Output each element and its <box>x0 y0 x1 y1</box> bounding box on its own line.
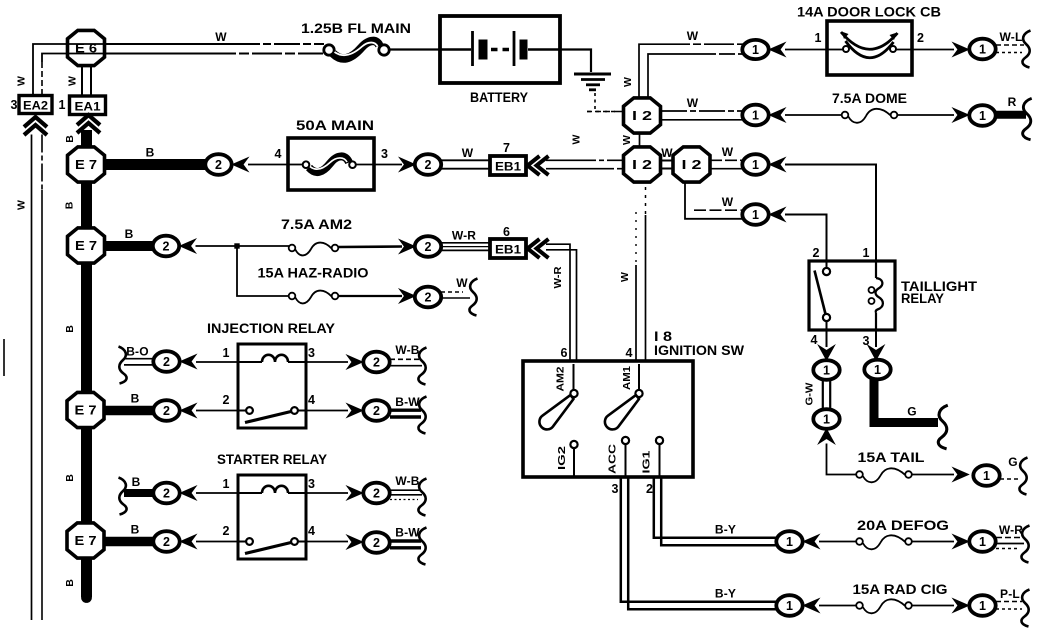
svg-text:W: W <box>16 200 28 210</box>
svg-text:B: B <box>131 523 140 537</box>
svg-text:2: 2 <box>646 482 653 496</box>
wire W-L tail and squiggle <box>996 30 1031 68</box>
connector 2 (left of 7.5A AM2) <box>153 236 179 257</box>
svg-text:2: 2 <box>223 524 230 538</box>
connector arrows right of EB1 pin 7 <box>528 156 549 175</box>
wire to fuse 7.5A AM2 <box>196 245 290 247</box>
svg-text:2: 2 <box>813 246 820 260</box>
wire to starter pin 2 <box>196 541 238 543</box>
svg-text:W-R: W-R <box>999 523 1023 537</box>
fuse 7.5A AM2 <box>289 243 339 256</box>
svg-text:7: 7 <box>503 141 510 155</box>
connector 2 (injection pin2 side) <box>153 400 179 421</box>
svg-text:W: W <box>67 76 79 86</box>
svg-text:4: 4 <box>811 333 818 347</box>
svg-text:2: 2 <box>215 158 222 172</box>
svg-text:W: W <box>571 134 583 144</box>
connector arrows below EA2 <box>24 117 47 135</box>
svg-text:I 2: I 2 <box>632 109 652 123</box>
svg-text:G-W: G-W <box>804 382 816 405</box>
svg-text:ACC: ACC <box>607 443 619 474</box>
connector 1 (defog out) <box>969 531 995 552</box>
starter relay switch <box>238 538 306 553</box>
svg-text:W: W <box>687 29 699 43</box>
svg-text:I 2: I 2 <box>632 158 652 172</box>
wire pair below EA2 running down left edge <box>32 135 43 621</box>
svg-text:15A HAZ-RADIO: 15A HAZ-RADIO <box>258 266 369 281</box>
svg-text:IG1: IG1 <box>641 450 653 473</box>
ignition IG1 contact <box>656 437 663 477</box>
wire W from I2 right to taillight relay pin 1 <box>710 160 742 168</box>
connector I2 (middle) <box>624 147 661 182</box>
connector arrow starter pin2 <box>181 535 197 549</box>
connector 1 (tail out) <box>973 465 999 486</box>
svg-text:4: 4 <box>275 147 282 161</box>
connector arrow below lower 1 <box>819 429 835 444</box>
svg-text:RELAY: RELAY <box>901 291 944 306</box>
fuse 15A RAD CIG <box>856 599 912 613</box>
svg-text:1: 1 <box>223 346 230 360</box>
svg-text:3: 3 <box>11 98 18 112</box>
wire W pair from I2 down to ignition pin 4 <box>636 187 646 361</box>
connector arrow injection pin3 <box>347 355 363 369</box>
wire rad cig fuse to connector <box>912 605 955 607</box>
wire E6 to EA2 (two lines) <box>33 44 104 96</box>
svg-text:2: 2 <box>373 404 380 418</box>
connector 1 (tail leg lower) <box>813 409 839 429</box>
svg-text:15A RAD CIG: 15A RAD CIG <box>853 582 948 597</box>
wire W from I2 top to dome fuse (double line) <box>661 111 742 120</box>
svg-text:P-L: P-L <box>1000 587 1020 601</box>
connector arrow right of 7.5A AM2 <box>400 240 416 254</box>
connector I2 (right) <box>673 147 710 182</box>
svg-text:1: 1 <box>752 43 759 57</box>
wire E6 to EA1 (double line) <box>82 66 91 96</box>
connector I2 (top) <box>624 98 661 133</box>
taillight relay coil <box>869 261 883 330</box>
svg-text:B-Y: B-Y <box>715 523 736 537</box>
wire to door lock CB pin 1 <box>785 49 827 51</box>
wire fuse to connector <box>339 295 403 297</box>
connector arrow starter pin3 <box>347 486 363 500</box>
svg-text:B-W: B-W <box>395 526 420 540</box>
wire W-B and squiggle (injection pin3) <box>390 343 427 385</box>
svg-text:W-B: W-B <box>395 474 419 488</box>
wire defog fuse to connector <box>912 541 955 543</box>
fuse 20A DEFOG <box>856 535 912 549</box>
svg-text:W: W <box>16 76 28 86</box>
connector arrows below EA1 <box>77 115 100 133</box>
connector 2 (left of 50A MAIN) <box>205 154 231 175</box>
wire relay pin 3 down <box>875 330 877 347</box>
battery <box>440 16 560 83</box>
wire B squiggle thick to connector (starter pin1) <box>119 475 155 515</box>
svg-text:G: G <box>1008 455 1018 469</box>
connector EA2 with pin 3 <box>11 96 52 114</box>
connector 1 (rad cig out) <box>969 595 995 616</box>
svg-text:B: B <box>125 227 134 241</box>
wire W link between I2 middle and I2 right <box>661 161 673 169</box>
wire link I2 top to I2 middle <box>639 133 641 147</box>
svg-text:W: W <box>215 30 227 44</box>
svg-text:4: 4 <box>626 346 633 360</box>
connector arrow left of 7.5A AM2 <box>180 239 196 253</box>
connector 1 (rad cig feed) <box>776 595 802 616</box>
squiggle G wire continues <box>938 405 948 449</box>
svg-text:1: 1 <box>752 158 759 172</box>
ignition AM1 lever <box>605 395 639 429</box>
wire G-W pair <box>823 380 830 409</box>
connector 1 (door lock out) <box>969 39 995 60</box>
dashed wire left of I2 top <box>587 111 623 113</box>
svg-text:I 8: I 8 <box>654 329 673 344</box>
svg-text:2: 2 <box>373 356 380 370</box>
svg-text:B-W: B-W <box>395 395 420 409</box>
wire from I2 right down to relay pin 2 connector <box>685 182 742 219</box>
connector arrow starter pin1 <box>181 486 197 500</box>
svg-text:2: 2 <box>163 355 170 369</box>
wire starter pin 4 to connector <box>306 541 348 543</box>
svg-text:I 2: I 2 <box>682 158 702 172</box>
wire G thick from pin 3 connector <box>874 379 938 423</box>
svg-text:2: 2 <box>163 240 170 254</box>
wire B thick E7 to connector 2 (7.5A AM2 row) <box>104 241 153 251</box>
svg-text:1: 1 <box>823 413 830 427</box>
svg-text:E 7: E 7 <box>75 239 97 253</box>
svg-text:AM1: AM1 <box>621 366 633 390</box>
wire tail fuse to connector <box>912 474 955 476</box>
svg-text:1: 1 <box>786 535 793 549</box>
svg-text:1: 1 <box>59 98 66 112</box>
svg-text:2: 2 <box>917 31 924 45</box>
svg-text:B-O: B-O <box>126 345 149 359</box>
ground <box>574 74 611 90</box>
wire W-R tail and squiggle (defog) <box>996 523 1030 563</box>
ignition switch box <box>523 361 693 477</box>
connector arrow taillight feed <box>770 158 786 172</box>
wire door lock CB pin 2 to connector <box>912 49 954 51</box>
connector 1 (below pin 3) <box>864 360 890 380</box>
connector 1 (below pin 4) <box>813 360 839 380</box>
svg-text:W: W <box>722 145 734 159</box>
injection relay coil <box>238 355 306 362</box>
stray page edge mark <box>3 339 5 376</box>
svg-text:E 7: E 7 <box>75 158 97 172</box>
svg-text:6: 6 <box>503 225 510 239</box>
connector arrow below pin 3 <box>868 346 884 361</box>
svg-text:B: B <box>64 135 76 143</box>
svg-text:2: 2 <box>425 240 432 254</box>
wire W-R from EB1 down to ignition switch pin 6 <box>546 244 577 361</box>
wire W from I2 top up to door lock CB row <box>639 44 743 98</box>
svg-text:1: 1 <box>979 535 986 549</box>
svg-text:2: 2 <box>163 487 170 501</box>
svg-text:2: 2 <box>223 393 230 407</box>
connector arrow injection pin2 <box>181 404 197 418</box>
svg-text:E 7: E 7 <box>75 534 97 548</box>
wire B-Y from ACC down to 15A RAD CIG <box>621 477 776 609</box>
connector arrow right of door lock CB <box>953 43 969 57</box>
wire to starter pin 1 <box>196 492 238 494</box>
connector arrow injection pin4 <box>347 404 363 418</box>
svg-text:W: W <box>456 276 468 290</box>
connector 1 (door lock feed) <box>742 40 768 59</box>
svg-text:4: 4 <box>308 524 315 538</box>
svg-text:1: 1 <box>863 246 870 260</box>
svg-text:2: 2 <box>163 404 170 418</box>
svg-text:B-Y: B-Y <box>715 587 736 601</box>
main B bus wire from EA1 down <box>81 130 92 603</box>
connector 2 (injection pin1 side) <box>153 351 179 372</box>
svg-text:B: B <box>64 579 76 587</box>
svg-text:1: 1 <box>786 599 793 613</box>
svg-text:1: 1 <box>752 208 759 222</box>
taillight relay switch <box>815 261 831 330</box>
connector 1 (defog feed) <box>776 531 802 552</box>
connector arrow right of rad cig fuse <box>953 599 969 613</box>
connector E7 (row 4) <box>67 523 104 558</box>
connector arrow right of defog fuse <box>953 535 969 549</box>
svg-text:B: B <box>131 392 140 406</box>
svg-text:3: 3 <box>308 346 315 360</box>
svg-text:G: G <box>907 405 917 419</box>
svg-text:2: 2 <box>373 487 380 501</box>
connector arrow right of 50A MAIN <box>400 158 416 172</box>
svg-text:B: B <box>146 146 155 160</box>
svg-text:IG2: IG2 <box>556 446 568 470</box>
svg-text:1: 1 <box>815 31 822 45</box>
svg-text:EA2: EA2 <box>23 99 48 113</box>
wire fuse AM2 to connector <box>339 245 403 248</box>
svg-text:1: 1 <box>979 109 986 123</box>
svg-text:B: B <box>64 325 76 333</box>
svg-text:3: 3 <box>612 482 619 496</box>
injection relay switch <box>238 407 306 422</box>
svg-text:W: W <box>621 135 633 145</box>
relay box starter <box>238 475 306 559</box>
wire to 15A RAD CIG fuse <box>819 605 857 607</box>
svg-text:B: B <box>64 201 76 209</box>
dashed wire ground area to connector I2 <box>587 93 623 112</box>
connector E7 (row 2) <box>68 228 105 263</box>
starter relay coil <box>238 486 306 493</box>
svg-text:B: B <box>64 474 76 482</box>
svg-text:E 7: E 7 <box>75 404 97 418</box>
connector 2 (starter pin1 side) <box>153 483 179 504</box>
connector 2 (right of 7.5A AM2) <box>415 236 441 257</box>
junction node <box>234 243 239 248</box>
svg-text:STARTER RELAY: STARTER RELAY <box>217 452 327 467</box>
connector EA1 with pin 1 <box>59 96 106 115</box>
svg-text:2: 2 <box>373 536 380 550</box>
wire W double line to EB1 <box>441 160 490 168</box>
svg-text:W: W <box>722 195 734 209</box>
fusible link 50A MAIN <box>288 118 374 190</box>
wire B-W thick and squiggle (starter pin4) <box>390 526 427 565</box>
relay box injection <box>238 344 306 428</box>
connector E7 (row 3) <box>67 392 104 427</box>
connector arrow relay pin2 feed <box>770 208 786 222</box>
svg-text:2: 2 <box>163 535 170 549</box>
svg-text:EB1: EB1 <box>495 160 521 174</box>
svg-text:1: 1 <box>823 364 830 378</box>
wire R thick tail and squiggle <box>996 95 1032 140</box>
connector arrow right of HAZ-RADIO <box>400 289 416 303</box>
wire to relay pin 2 <box>785 215 827 262</box>
wire B-Y from IG1 down to 20A DEFOG <box>654 477 776 545</box>
connector E7 (row 1) <box>68 147 105 182</box>
svg-text:15A TAIL: 15A TAIL <box>858 450 925 465</box>
svg-text:20A DEFOG: 20A DEFOG <box>857 518 949 533</box>
connector arrow starter pin4 <box>347 535 363 549</box>
connector EB1 (pin 6) <box>490 239 526 258</box>
wire W-R to EB1 <box>441 243 490 251</box>
svg-text:6: 6 <box>561 346 568 360</box>
svg-text:1.25B FL MAIN: 1.25B FL MAIN <box>301 21 411 36</box>
svg-text:3: 3 <box>381 147 388 161</box>
ignition AM2 lever <box>539 395 573 429</box>
wire to fuse 50A MAIN pin 4 <box>248 164 288 166</box>
connector 2 (starter pin2 side) <box>153 531 179 552</box>
svg-text:1: 1 <box>979 599 986 613</box>
connector arrow dome feed <box>770 108 786 122</box>
svg-text:7.5A DOME: 7.5A DOME <box>832 91 907 106</box>
svg-text:B: B <box>132 475 141 489</box>
circuit breaker 14A DOOR LOCK CB <box>827 21 912 75</box>
wire to injection pin 2 <box>196 410 238 412</box>
wire stub and continuation squiggle HAZ-RADIO <box>441 279 478 316</box>
taillight relay box <box>809 261 895 330</box>
fuse 7.5A DOME <box>842 109 898 123</box>
svg-text:1: 1 <box>983 469 990 483</box>
fusible link 1.25B FL MAIN <box>301 21 411 59</box>
connector 1 (taillight feed) <box>742 154 768 175</box>
connector 2 (right of HAZ-RADIO) <box>415 287 441 308</box>
svg-text:2: 2 <box>425 158 432 172</box>
svg-text:W: W <box>661 146 673 160</box>
svg-text:W-B: W-B <box>395 343 419 357</box>
svg-text:4: 4 <box>308 393 315 407</box>
ignition AM2 contact <box>570 364 577 397</box>
wire injection pin 3 to connector <box>306 361 348 363</box>
connector arrow injection pin1 <box>181 355 197 369</box>
wire G tail stub and squiggle <box>1000 455 1028 495</box>
connector 1 (dome out) <box>969 105 995 126</box>
wire to 7.5A DOME fuse <box>785 114 842 116</box>
connector arrow below pin 4 <box>819 346 835 361</box>
wire W-B and squiggle (starter pin3) <box>390 474 427 516</box>
svg-text:3: 3 <box>308 477 315 491</box>
svg-text:AM2: AM2 <box>555 366 567 391</box>
connector 1 (dome feed) <box>742 105 768 126</box>
connector arrow at 50A MAIN left <box>233 158 249 172</box>
wire dome fuse to connector <box>897 114 954 116</box>
wire FL MAIN to battery <box>390 48 442 50</box>
svg-text:50A MAIN: 50A MAIN <box>296 118 374 133</box>
wire down to 15A TAIL row <box>827 444 857 475</box>
svg-text:W-R: W-R <box>552 266 564 288</box>
ignition AM1 contact <box>635 364 642 397</box>
svg-text:W: W <box>622 77 634 87</box>
wire B thick from E7 (injection pin2) <box>104 406 154 416</box>
svg-text:INJECTION RELAY: INJECTION RELAY <box>207 321 335 336</box>
wire 50A MAIN pin 3 to connector <box>374 164 402 166</box>
svg-text:W-L: W-L <box>999 30 1022 44</box>
connector arrow rad cig feed <box>804 599 820 613</box>
svg-text:1: 1 <box>752 109 759 123</box>
wire to 20A DEFOG fuse <box>819 541 857 543</box>
svg-text:EB1: EB1 <box>495 243 521 257</box>
connector 2 (starter pin4 side) <box>363 532 389 553</box>
svg-text:14A DOOR LOCK CB: 14A DOOR LOCK CB <box>797 5 941 20</box>
svg-text:W: W <box>687 96 699 110</box>
wire B thick from E7 (starter pin2) <box>104 537 154 547</box>
svg-text:1: 1 <box>223 477 230 491</box>
connector arrow right of dome <box>953 108 969 122</box>
svg-text:W: W <box>619 272 631 282</box>
svg-text:W-R: W-R <box>452 229 476 243</box>
svg-text:EA1: EA1 <box>75 100 101 114</box>
ignition IG2 contact <box>570 441 577 477</box>
wire junction down to 15A HAZ-RADIO <box>237 246 289 296</box>
connector EB1 (pin 7) <box>490 156 526 175</box>
connector arrow right of tail fuse <box>953 468 969 482</box>
wire B-O squiggle to connector (injection pin1) <box>119 345 155 384</box>
wire taillight feed to relay pin 1 <box>785 165 876 262</box>
svg-text:1: 1 <box>979 43 986 57</box>
wire battery to ground <box>560 50 591 73</box>
wire injection pin 4 to connector <box>306 410 348 412</box>
svg-text:IGNITION SW: IGNITION SW <box>654 343 744 358</box>
wire B-W thick and squiggle (injection pin4) <box>390 395 427 434</box>
connector E6 <box>68 30 105 65</box>
wire B thick E7 to connector 2 (50A MAIN row) <box>104 159 206 170</box>
svg-text:W: W <box>462 146 474 160</box>
wire P-L tail and squiggle (rad cig) <box>996 587 1030 627</box>
wire relay pin 4 down <box>826 330 828 347</box>
svg-text:R: R <box>1008 95 1017 109</box>
fuse 15A HAZ-RADIO <box>289 291 339 304</box>
svg-text:2: 2 <box>425 291 432 305</box>
connector 1 (relay pin2 feed) <box>742 204 768 225</box>
ignition ACC contact <box>622 437 629 477</box>
connector arrow defog feed <box>804 535 820 549</box>
wire W from E6 to fusible link FL MAIN (double line) <box>104 44 324 54</box>
fuse 15A TAIL <box>856 468 912 482</box>
svg-text:1: 1 <box>874 363 881 377</box>
connector 2 (starter pin3 side) <box>363 483 389 504</box>
connector arrow door lock feed <box>770 43 786 57</box>
wire to injection pin 1 <box>196 361 238 363</box>
connector arrows right of EB1 pin 6 <box>528 239 549 258</box>
connector 2 (injection pin4 side) <box>363 400 389 421</box>
connector 2 (injection pin3 side) <box>363 352 389 373</box>
wire starter pin 3 to connector <box>306 492 348 494</box>
connector 2 (right of 50A MAIN) <box>415 154 441 175</box>
svg-text:7.5A AM2: 7.5A AM2 <box>281 217 352 232</box>
svg-text:BATTERY: BATTERY <box>470 90 528 105</box>
wire W double line EB1 to I2 <box>546 160 623 168</box>
